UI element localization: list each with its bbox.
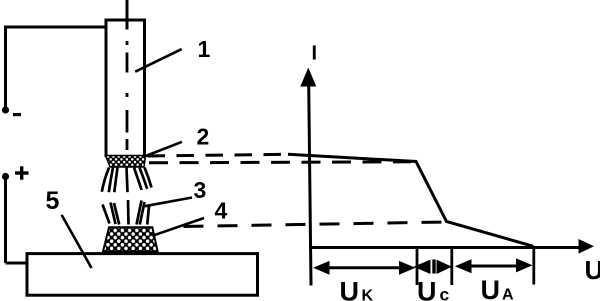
svg-text:U: U — [340, 277, 360, 301]
svg-text:5: 5 — [46, 187, 60, 215]
svg-text:A: A — [502, 287, 514, 301]
svg-text:I: I — [312, 43, 318, 65]
svg-text:3: 3 — [194, 177, 207, 203]
svg-text:2: 2 — [197, 124, 210, 150]
svg-text:1: 1 — [198, 36, 211, 62]
svg-text:K: K — [362, 288, 374, 301]
svg-text:U: U — [585, 255, 600, 285]
svg-text:4: 4 — [215, 198, 228, 224]
svg-text:U: U — [481, 275, 501, 301]
svg-text:c: c — [440, 285, 450, 301]
svg-text:U: U — [417, 277, 437, 301]
